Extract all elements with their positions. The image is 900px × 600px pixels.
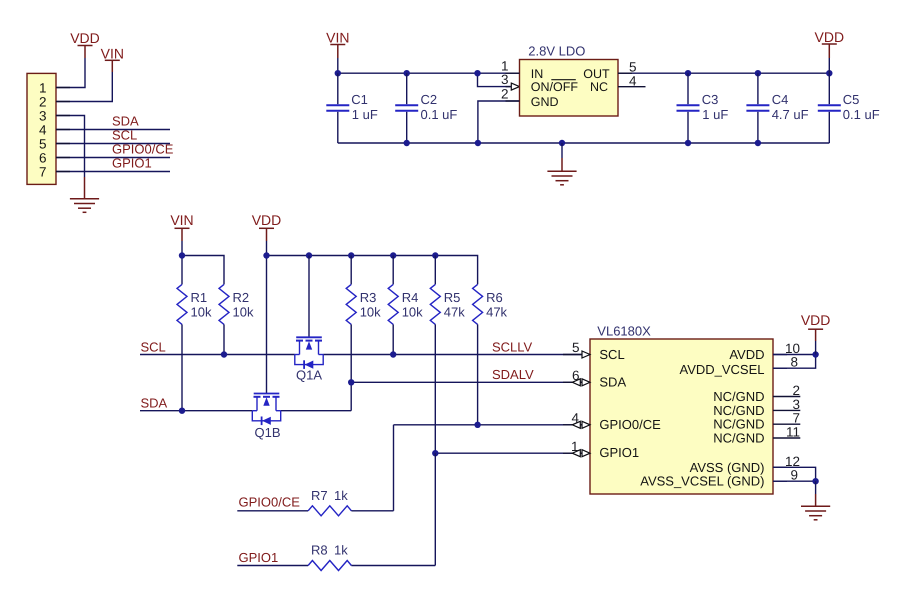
svg-text:AVSS_VCSEL (GND): AVSS_VCSEL (GND) xyxy=(640,474,764,489)
svg-text:VIN: VIN xyxy=(170,212,193,228)
svg-text:1: 1 xyxy=(39,80,47,95)
wire AVDD pin 10 xyxy=(773,354,816,356)
resistor R1 xyxy=(177,284,212,324)
svg-text:5: 5 xyxy=(572,340,580,355)
svg-text:C4: C4 xyxy=(772,92,789,107)
node junction AVDD xyxy=(812,351,818,357)
pin stub J1 pin3 xyxy=(56,115,70,117)
power flag VDD xyxy=(815,29,845,58)
svg-text:5: 5 xyxy=(629,60,637,75)
svg-text:2.8V LDO: 2.8V LDO xyxy=(528,44,585,59)
capacitor C4 xyxy=(746,73,808,143)
node junction R2/SCL xyxy=(221,351,227,357)
node junction C4 top xyxy=(755,70,761,76)
wire R8 riser xyxy=(434,453,436,565)
svg-text:C1: C1 xyxy=(351,92,368,107)
svg-text:SCL: SCL xyxy=(599,347,624,362)
pin arrow GPIO0/CE xyxy=(572,421,590,428)
wire VDD stem to Q1B gate xyxy=(266,241,268,393)
pin stub J1 pin7 xyxy=(56,171,70,173)
capacitor C3 xyxy=(677,73,729,143)
svg-text:GPIO1: GPIO1 xyxy=(599,445,639,460)
svg-text:Q1A: Q1A xyxy=(296,368,322,383)
pin stub LDO IN xyxy=(506,72,520,74)
svg-text:10k: 10k xyxy=(360,305,381,320)
svg-text:SDA: SDA xyxy=(112,114,139,129)
node junction R5/R8/GPIO1 xyxy=(432,450,438,456)
pin stub NC/GND 7 xyxy=(773,423,800,425)
pin stub U1 AVDD_VCSEL xyxy=(773,367,787,369)
wire SCLLV line right xyxy=(323,354,582,356)
svg-text:SCL: SCL xyxy=(141,339,166,354)
node junction ON/OFF branch xyxy=(474,70,480,76)
node junction VIN rail xyxy=(179,252,185,258)
svg-text:1k: 1k xyxy=(334,543,348,558)
capacitor C1 xyxy=(326,73,378,143)
ground xyxy=(801,494,830,520)
svg-text:9: 9 xyxy=(790,468,798,483)
transistor Q1A xyxy=(295,337,323,382)
pin arrow SCL xyxy=(582,351,590,358)
svg-text:GPIO0/CE: GPIO0/CE xyxy=(239,495,301,510)
svg-text:R4: R4 xyxy=(402,290,419,305)
node junction ground stem xyxy=(559,140,565,146)
node junction C2 top xyxy=(404,70,410,76)
resistor R2 xyxy=(219,284,254,324)
wire VDD to pin 1 xyxy=(56,58,85,88)
wire R4 bottom to SCLLV xyxy=(392,324,394,354)
pin stub J1 pin5 xyxy=(56,143,70,145)
svg-text:2: 2 xyxy=(792,383,800,398)
svg-text:R2: R2 xyxy=(233,290,250,305)
svg-text:VIN: VIN xyxy=(326,30,349,46)
svg-text:VL6180X: VL6180X xyxy=(597,324,651,339)
pin stub U1 SDA xyxy=(563,381,590,383)
svg-text:GPIO0/CE: GPIO0/CE xyxy=(599,417,661,432)
resistor R8 xyxy=(237,543,435,571)
svg-text:VDD: VDD xyxy=(801,312,831,328)
pin 4 NC stub xyxy=(618,86,646,88)
wire pin 3 to ground xyxy=(56,116,85,178)
svg-text:7: 7 xyxy=(792,411,800,426)
wire R5 bottom to GPIO1 xyxy=(434,324,436,453)
wire R7 riser xyxy=(393,425,395,511)
pin stub LDO ON/OFF xyxy=(506,86,512,88)
node junction R5 top xyxy=(432,252,438,258)
svg-text:10k: 10k xyxy=(402,305,423,320)
wire OUT rail xyxy=(618,72,829,74)
svg-text:GPIO1: GPIO1 xyxy=(112,156,152,171)
capacitor C5 xyxy=(818,73,880,143)
svg-text:AVDD: AVDD xyxy=(729,347,764,362)
wire R2 bottom to SCL xyxy=(223,324,225,354)
svg-text:R8: R8 xyxy=(311,543,328,558)
wire SDA line left xyxy=(140,410,252,412)
ground xyxy=(70,177,99,212)
wire AVSS pin 12 xyxy=(773,467,816,481)
svg-text:VDD: VDD xyxy=(70,30,100,46)
svg-text:OUT: OUT xyxy=(583,67,610,81)
power flag VIN xyxy=(326,30,349,59)
svg-text:0.1 uF: 0.1 uF xyxy=(421,107,458,122)
pin stub U1 AVSS_VCSEL xyxy=(773,480,787,482)
wire R3 bottom to SDALV xyxy=(350,324,352,410)
transistor Q1B xyxy=(252,394,280,441)
svg-text:GPIO1: GPIO1 xyxy=(239,550,279,565)
node junction C4 bottom xyxy=(755,140,761,146)
pin stub J1 pin4 xyxy=(56,129,70,131)
wire VDD stem xyxy=(815,341,817,355)
wire GND pin 2 xyxy=(478,101,520,143)
node junction C2 bottom xyxy=(404,140,410,146)
svg-text:3: 3 xyxy=(39,108,47,123)
svg-text:VDD: VDD xyxy=(252,212,282,228)
node junction R4 top xyxy=(390,252,396,258)
node junction VDD C5 top xyxy=(826,70,832,76)
svg-text:SDALV: SDALV xyxy=(492,367,534,382)
pin stub NC/GND 2 xyxy=(773,396,800,398)
capacitor C2 xyxy=(395,73,457,143)
node junction R4/SCLLV xyxy=(390,351,396,357)
svg-text:6: 6 xyxy=(572,368,580,383)
power flag VIN xyxy=(170,212,193,241)
svg-text:Q1B: Q1B xyxy=(255,425,281,440)
svg-text:10k: 10k xyxy=(233,305,254,320)
power flag VDD xyxy=(252,212,282,241)
wire VDD stem xyxy=(828,58,830,73)
node junction R1/SDA xyxy=(179,408,185,414)
node junction Q1A gate xyxy=(306,252,312,258)
svg-text:GND: GND xyxy=(531,95,559,109)
svg-text:4: 4 xyxy=(571,411,579,426)
svg-text:12: 12 xyxy=(785,454,800,469)
pin stub U1 AVDD xyxy=(773,354,787,356)
wire GPIO1 line xyxy=(435,452,582,454)
pin stub LDO GND xyxy=(506,100,520,102)
svg-text:47k: 47k xyxy=(444,305,465,320)
svg-text:SDA: SDA xyxy=(141,396,168,411)
wire SDA line right to riser xyxy=(281,410,352,412)
power flag VDD xyxy=(801,312,831,341)
wire to ground xyxy=(815,481,817,494)
IC U1 VL6180X xyxy=(590,339,773,494)
svg-text:3: 3 xyxy=(792,397,800,412)
wire R1 bottom to SDA xyxy=(181,324,183,410)
wire SDALV line xyxy=(351,381,582,383)
node junction R6/GPIO0 xyxy=(474,422,480,428)
svg-text:1 uF: 1 uF xyxy=(352,107,378,122)
wire pin 6 GPIO0/CE xyxy=(56,157,170,159)
pin stub NC/GND 11 xyxy=(773,437,800,439)
svg-text:VIN: VIN xyxy=(101,45,124,61)
svg-text:R6: R6 xyxy=(486,290,503,305)
wire pin 7 GPIO1 xyxy=(56,171,170,173)
svg-text:GPIO0/CE: GPIO0/CE xyxy=(112,142,174,157)
svg-text:IN: IN xyxy=(531,67,544,81)
ground xyxy=(547,143,576,185)
wire VIN rail to LDO IN xyxy=(338,58,520,73)
svg-text:ON/OFF: ON/OFF xyxy=(531,80,579,94)
svg-text:SCLLV: SCLLV xyxy=(492,339,533,354)
node junction VIN rail xyxy=(335,70,341,76)
resistor R6 xyxy=(473,284,508,324)
node junction VDD rail xyxy=(263,252,269,258)
pin arrow SDA xyxy=(572,379,590,386)
pin stub U1 GPIO1 xyxy=(563,452,590,454)
svg-text:VDD: VDD xyxy=(815,29,845,45)
wire AVDD_VCSEL pin 8 xyxy=(773,355,816,369)
node junction GND pin2 xyxy=(475,140,481,146)
svg-text:C5: C5 xyxy=(843,92,860,107)
svg-text:10k: 10k xyxy=(191,305,212,320)
svg-text:R1: R1 xyxy=(191,290,208,305)
wire AVSS_VCSEL pin 9 xyxy=(773,480,816,482)
resistor R7 xyxy=(237,488,393,516)
wire VIN stem xyxy=(181,241,183,284)
svg-text:AVDD_VCSEL: AVDD_VCSEL xyxy=(679,362,764,377)
svg-text:SDA: SDA xyxy=(599,374,626,389)
svg-text:R3: R3 xyxy=(360,290,377,305)
wire pin 5 SCL xyxy=(56,143,170,145)
svg-text:4.7 uF: 4.7 uF xyxy=(772,107,809,122)
svg-text:R5: R5 xyxy=(444,290,461,305)
pin stub U1 SCL xyxy=(563,354,590,356)
wire VDD rail xyxy=(267,256,478,285)
svg-text:3: 3 xyxy=(501,72,509,87)
power flag VDD xyxy=(70,30,100,58)
wire VIN rail to R2 xyxy=(182,256,224,285)
wire ground rail xyxy=(338,142,830,144)
svg-text:0.1 uF: 0.1 uF xyxy=(843,107,880,122)
svg-text:6: 6 xyxy=(39,150,47,165)
svg-text:C3: C3 xyxy=(702,92,719,107)
svg-text:5: 5 xyxy=(39,136,47,151)
wire R6 bottom to GPIO0/CE xyxy=(477,324,479,424)
svg-text:C2: C2 xyxy=(421,92,438,107)
wire pin 4 SDA xyxy=(56,129,170,131)
svg-text:SCL: SCL xyxy=(112,128,137,143)
node junction C3 bottom xyxy=(685,140,691,146)
node junction R3 top xyxy=(348,252,354,258)
power flag VIN xyxy=(101,45,124,72)
wire Q1A gate xyxy=(308,256,310,338)
pin stub J1 pin6 xyxy=(56,157,70,159)
wire GPIO0/CE line xyxy=(394,424,583,426)
wire SCL line left xyxy=(140,354,295,356)
node junction AVSS xyxy=(812,478,818,484)
svg-text:11: 11 xyxy=(786,425,800,440)
node junction R3/SDALV xyxy=(348,379,354,385)
svg-text:47k: 47k xyxy=(486,305,507,320)
input arrow pin 3 xyxy=(511,83,519,90)
wire VIN to pin 2 xyxy=(56,72,112,102)
svg-text:1k: 1k xyxy=(334,488,348,503)
pin stub J1 pin2 xyxy=(56,101,70,103)
svg-text:8: 8 xyxy=(790,355,798,370)
svg-text:NC: NC xyxy=(590,80,608,94)
svg-text:7: 7 xyxy=(39,164,47,179)
wire ON/OFF branch xyxy=(478,73,513,86)
pin stub U1 GPIO0/CE xyxy=(563,424,590,426)
svg-text:1 uF: 1 uF xyxy=(702,107,728,122)
resistor R3 xyxy=(346,256,381,325)
pin arrow GPIO1 xyxy=(572,450,590,457)
pin stub LDO OUT xyxy=(618,72,632,74)
regulator U2 2.8V LDO xyxy=(520,60,619,117)
svg-text:NC/GND: NC/GND xyxy=(713,430,764,445)
svg-text:1: 1 xyxy=(571,439,579,454)
resistor R5 xyxy=(430,256,465,325)
svg-text:2: 2 xyxy=(39,94,47,109)
node junction C3 top xyxy=(685,70,691,76)
svg-text:R7: R7 xyxy=(311,488,328,503)
pin stub U1 AVSS xyxy=(773,466,787,468)
resistor R4 xyxy=(388,256,423,325)
svg-text:2: 2 xyxy=(501,87,509,102)
pin stub J1 pin1 xyxy=(56,87,70,89)
svg-text:4: 4 xyxy=(39,122,47,137)
connector J1 xyxy=(27,73,56,184)
pin stub NC/GND 3 xyxy=(773,409,800,411)
